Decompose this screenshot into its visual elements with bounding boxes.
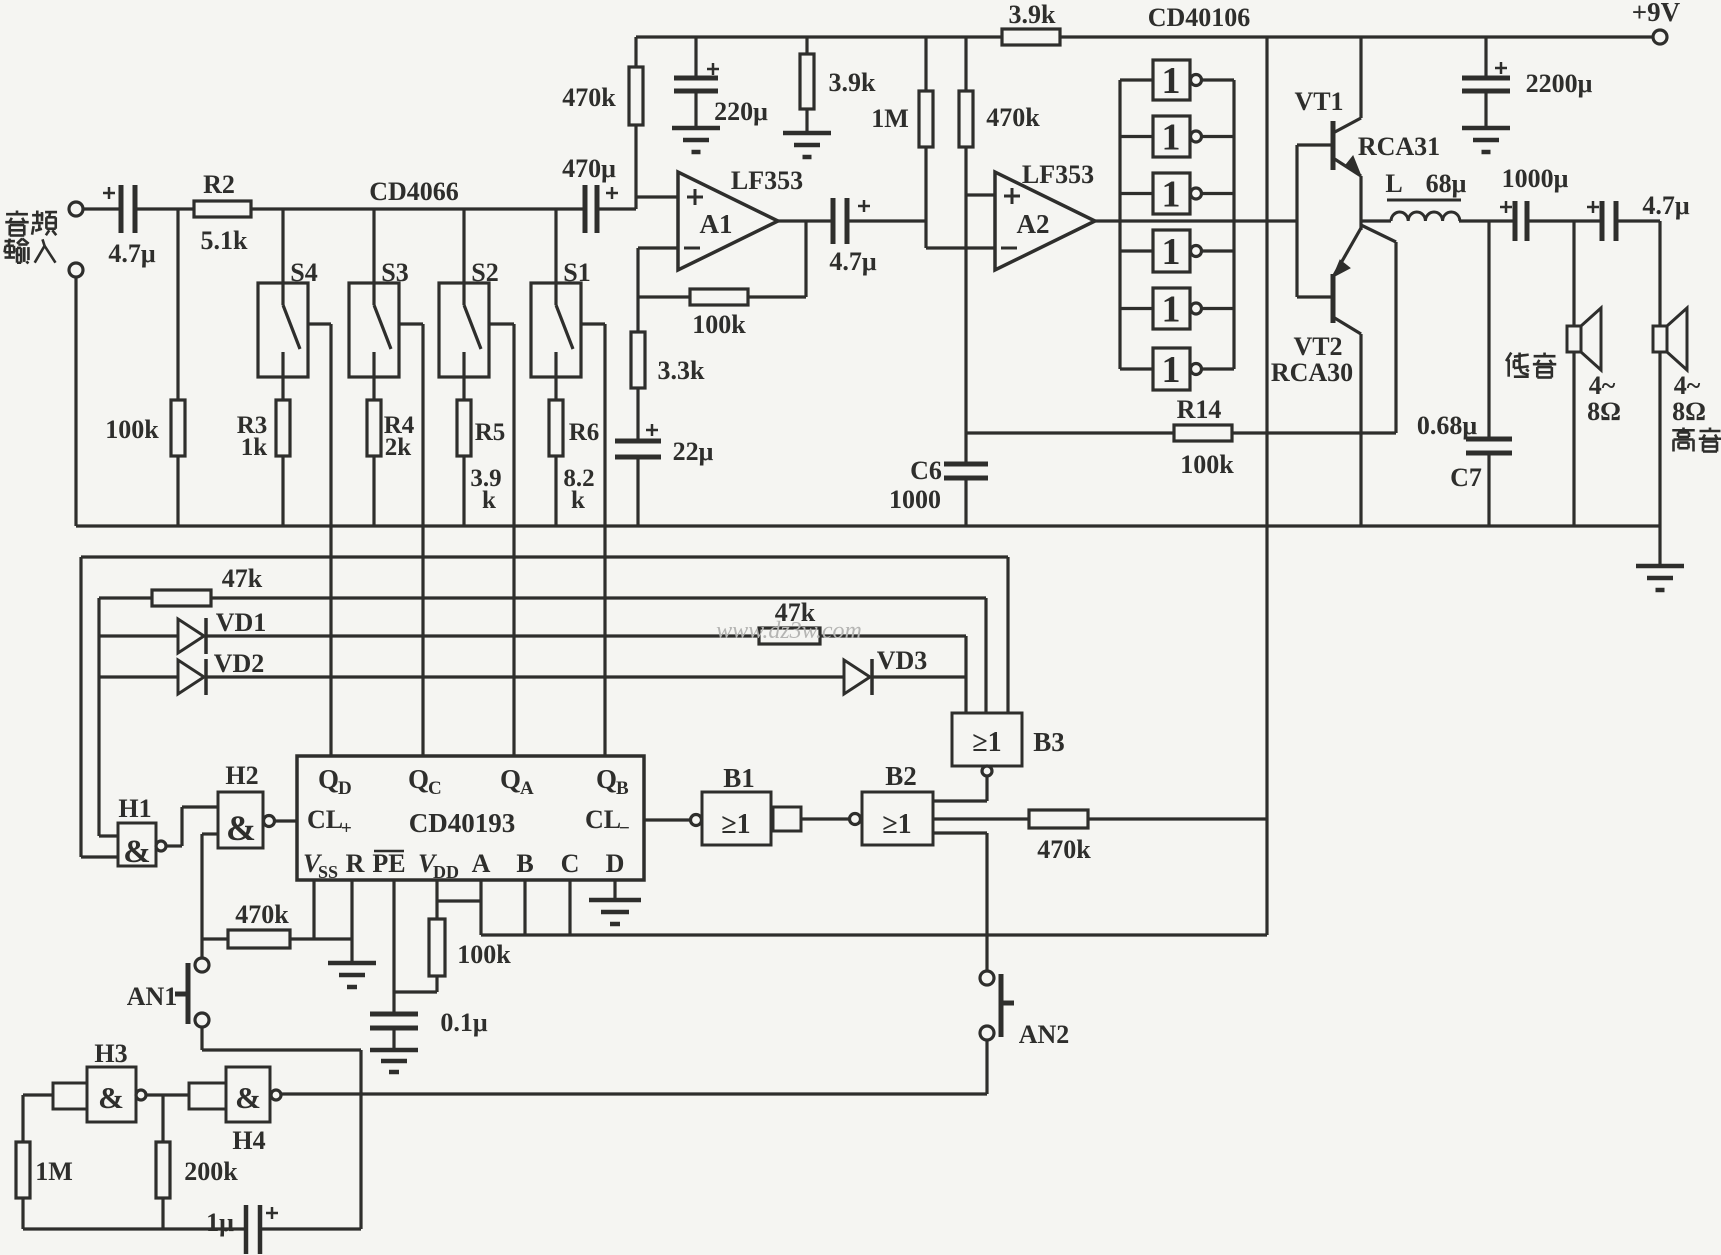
svg-text:H3: H3 xyxy=(94,1039,127,1068)
svg-text:470k: 470k xyxy=(986,103,1040,132)
svg-text:Q: Q xyxy=(596,764,617,794)
svg-text:1: 1 xyxy=(1162,289,1181,331)
svg-text:4.7μ: 4.7μ xyxy=(829,247,877,276)
svg-text:4~: 4~ xyxy=(1589,371,1616,400)
svg-text:0.68μ: 0.68μ xyxy=(1417,411,1478,440)
svg-text:68μ: 68μ xyxy=(1426,169,1467,198)
svg-text:C7: C7 xyxy=(1450,463,1482,492)
svg-text:D: D xyxy=(606,849,625,878)
svg-text:4~: 4~ xyxy=(1674,371,1701,400)
svg-text:1: 1 xyxy=(1162,174,1181,216)
svg-text:470μ: 470μ xyxy=(562,154,616,183)
svg-text:100k: 100k xyxy=(105,415,159,444)
svg-text:1k: 1k xyxy=(241,434,268,461)
svg-text:470k: 470k xyxy=(1037,835,1091,864)
svg-text:R2: R2 xyxy=(203,170,235,199)
svg-text:1μ: 1μ xyxy=(206,1208,234,1237)
svg-text:C6: C6 xyxy=(910,456,942,485)
svg-text:22μ: 22μ xyxy=(673,437,714,466)
svg-text:3.9k: 3.9k xyxy=(829,68,877,97)
svg-text:H2: H2 xyxy=(225,761,258,790)
svg-text:1M: 1M xyxy=(871,104,909,133)
svg-text:RCA31: RCA31 xyxy=(1358,132,1440,161)
svg-text:1000: 1000 xyxy=(889,485,941,514)
svg-text:VT1: VT1 xyxy=(1294,87,1343,116)
svg-text:1000μ: 1000μ xyxy=(1502,164,1569,193)
svg-text:R5: R5 xyxy=(475,419,506,446)
svg-text:3.3k: 3.3k xyxy=(658,356,706,385)
svg-text:CD40106: CD40106 xyxy=(1148,3,1251,32)
svg-text:8Ω: 8Ω xyxy=(1672,397,1706,426)
svg-text:S3: S3 xyxy=(381,258,408,287)
svg-text:R6: R6 xyxy=(569,419,600,446)
svg-text:2200μ: 2200μ xyxy=(1526,69,1593,98)
svg-text:R14: R14 xyxy=(1177,395,1222,424)
svg-text:A: A xyxy=(520,778,534,799)
svg-text:B1: B1 xyxy=(723,763,755,793)
svg-text:LF353: LF353 xyxy=(731,166,803,195)
svg-text:+: + xyxy=(341,818,352,839)
svg-text:C: C xyxy=(561,849,580,878)
svg-text:≥1: ≥1 xyxy=(972,727,1001,758)
svg-text:&: & xyxy=(123,834,151,870)
svg-text:100k: 100k xyxy=(1180,450,1234,479)
svg-text:D: D xyxy=(338,778,352,799)
svg-text:4.7μ: 4.7μ xyxy=(1642,191,1690,220)
svg-text:www.dz3w.com: www.dz3w.com xyxy=(716,618,862,644)
svg-text:VD1: VD1 xyxy=(216,608,267,637)
svg-text:Q: Q xyxy=(500,764,521,794)
svg-text:Q: Q xyxy=(408,764,429,794)
svg-text:4.7μ: 4.7μ xyxy=(108,239,156,268)
svg-text:+9V: +9V xyxy=(1632,0,1681,27)
svg-text:RCA30: RCA30 xyxy=(1271,358,1353,387)
svg-text:1: 1 xyxy=(1162,60,1181,102)
svg-text:1: 1 xyxy=(1162,231,1181,273)
svg-text:H4: H4 xyxy=(232,1126,265,1155)
svg-text:A1: A1 xyxy=(700,209,733,239)
svg-text:R: R xyxy=(346,849,365,878)
svg-text:220μ: 220μ xyxy=(714,97,768,126)
svg-text:8Ω: 8Ω xyxy=(1587,397,1621,426)
svg-text:2k: 2k xyxy=(385,434,412,461)
svg-text:PE: PE xyxy=(372,849,405,878)
svg-text:1: 1 xyxy=(1162,349,1181,391)
svg-text:CD4066: CD4066 xyxy=(369,177,459,206)
svg-text:B: B xyxy=(616,778,629,799)
svg-text:200k: 200k xyxy=(184,1157,238,1186)
svg-text:−: − xyxy=(619,818,630,839)
svg-text:VD3: VD3 xyxy=(877,646,928,675)
svg-text:AN2: AN2 xyxy=(1019,1020,1070,1049)
svg-text:S4: S4 xyxy=(290,258,317,287)
svg-text:CD40193: CD40193 xyxy=(409,808,516,838)
svg-text:47k: 47k xyxy=(222,564,263,593)
svg-text:5.1k: 5.1k xyxy=(201,226,249,255)
svg-text:0.1μ: 0.1μ xyxy=(440,1008,488,1037)
svg-text:k: k xyxy=(571,487,585,514)
svg-text:A2: A2 xyxy=(1017,209,1050,239)
svg-text:A: A xyxy=(472,849,491,878)
svg-text:470k: 470k xyxy=(562,83,616,112)
svg-text:100k: 100k xyxy=(457,940,511,969)
svg-text:k: k xyxy=(482,487,496,514)
svg-text:CL: CL xyxy=(585,805,621,834)
svg-text:3.9k: 3.9k xyxy=(1009,0,1057,29)
svg-text:1M: 1M xyxy=(35,1157,73,1186)
svg-text:470k: 470k xyxy=(235,900,289,929)
svg-text:LF353: LF353 xyxy=(1022,160,1094,189)
svg-text:H1: H1 xyxy=(118,794,151,823)
svg-text:≥1: ≥1 xyxy=(882,809,911,840)
svg-text:S1: S1 xyxy=(563,258,590,287)
svg-text:&: & xyxy=(235,1080,261,1115)
svg-text:Q: Q xyxy=(318,764,339,794)
svg-text:B2: B2 xyxy=(885,761,917,791)
svg-text:L: L xyxy=(1385,169,1402,198)
svg-text:100k: 100k xyxy=(692,310,746,339)
svg-text:C: C xyxy=(428,778,442,799)
svg-text:CL: CL xyxy=(307,805,343,834)
svg-text:1: 1 xyxy=(1162,117,1181,159)
svg-text:DD: DD xyxy=(433,862,459,882)
svg-text:B: B xyxy=(516,849,533,878)
svg-text:SS: SS xyxy=(318,862,338,882)
svg-text:S2: S2 xyxy=(471,258,498,287)
svg-text:&: & xyxy=(226,808,256,848)
svg-text:VD2: VD2 xyxy=(214,649,265,678)
svg-text:AN1: AN1 xyxy=(127,982,178,1011)
svg-text:≥1: ≥1 xyxy=(721,809,750,840)
svg-text:&: & xyxy=(98,1080,124,1115)
svg-text:VT2: VT2 xyxy=(1293,332,1342,361)
svg-text:B3: B3 xyxy=(1033,727,1065,757)
